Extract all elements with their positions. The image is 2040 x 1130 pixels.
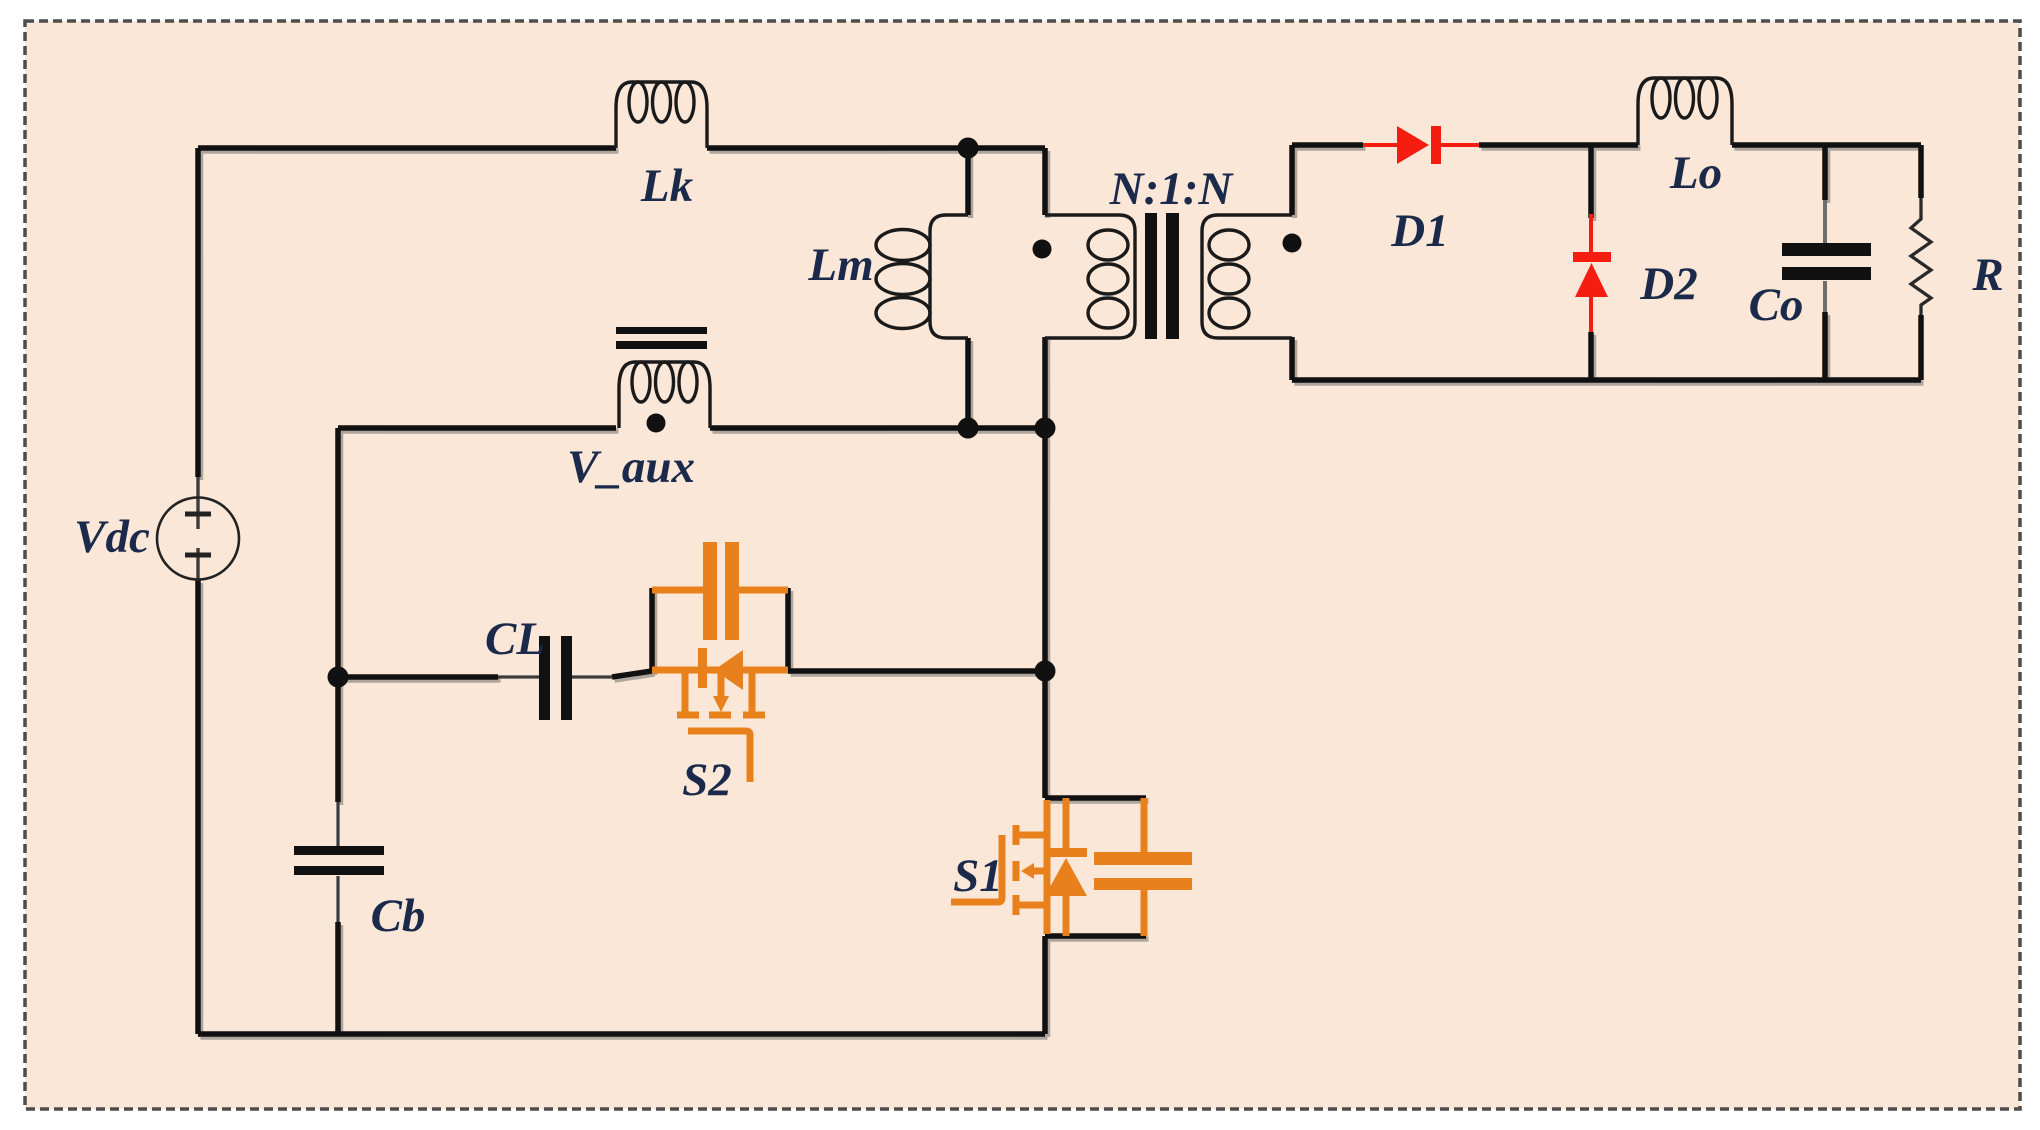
svg-text:S1: S1	[953, 850, 1003, 902]
node A junction dot	[958, 138, 979, 159]
node D junction dot (S2 output)	[1035, 661, 1056, 682]
wire: top rail from left rail to Lk	[198, 145, 616, 151]
wire: Co branch top	[1822, 145, 1828, 200]
wire: V_aux rail from left branch to node B	[338, 425, 616, 431]
wire: top rail from Lk to primary corner	[707, 145, 1045, 151]
wire: D2 branch upper black part	[1588, 145, 1594, 218]
wire: S2 left terminal vertical	[649, 588, 655, 672]
svg-text:Lm: Lm	[807, 239, 873, 291]
wire: Co branch bottom	[1822, 312, 1828, 380]
svg-text:Co: Co	[1749, 279, 1804, 331]
svg-text:Lo: Lo	[1669, 147, 1722, 199]
wire: S1 source to bottom rail	[1042, 936, 1048, 1034]
svg-text:Lk: Lk	[640, 160, 694, 212]
node B junction dot	[958, 418, 979, 439]
svg-text:CL: CL	[485, 613, 545, 665]
svg-text:N:1:N: N:1:N	[1109, 163, 1235, 215]
transformer secondary winding	[1202, 215, 1292, 338]
capacitor Co lead (thin)	[1823, 200, 1827, 312]
wire: left branch from V_aux rail down to Cb	[335, 428, 341, 802]
wire: drop from node A to primary top lead	[1042, 148, 1048, 215]
wire: bottom rail	[198, 1031, 1045, 1037]
wire: S2 output to center vertical	[788, 668, 1045, 674]
wire: S2 right terminal vertical	[785, 588, 791, 671]
wire: Lo to top right corner	[1732, 142, 1921, 148]
MOSFET S2 with snubber capacitor	[652, 542, 788, 782]
wire: output top rail from secondary to D1 anode	[1292, 142, 1363, 148]
diode D2	[1573, 214, 1611, 332]
resistor R	[1911, 198, 1931, 315]
wire: Cb to bottom rail	[335, 922, 341, 1034]
wire: secondary bottom lead corner down to output bottom rail	[1289, 337, 1295, 380]
wire: D1 cathode to D2 node	[1479, 142, 1591, 148]
wire: secondary top lead corner up to output top rail	[1289, 145, 1295, 215]
svg-text:R: R	[1971, 249, 2003, 301]
polarity dot primary	[1033, 240, 1052, 259]
node E junction dot (CL node)	[328, 667, 349, 688]
wire: CL node to CL cap	[338, 674, 498, 680]
wire: main center vertical from primary bottom to S1 drain	[1042, 337, 1048, 798]
svg-text:Cb: Cb	[371, 890, 426, 942]
wire: left rail from top wire down to Vdc source	[195, 148, 201, 477]
wire shadow layer	[201, 148, 1924, 1037]
wire: left rail from Vdc source down to bottom rail	[195, 580, 201, 1034]
inductor Lk	[616, 82, 707, 148]
wire: R top stub	[1918, 145, 1924, 198]
svg-text:D2: D2	[1639, 258, 1697, 310]
diode D1	[1363, 126, 1479, 164]
wire: Lm bottom lead drop to V_aux rail	[965, 338, 971, 428]
magnetizing inductor Lm	[876, 215, 968, 338]
capacitor Cb leads (thin)	[336, 802, 339, 922]
node C junction dot	[1035, 418, 1056, 439]
transformer core	[1145, 213, 1179, 339]
polarity dot secondary	[1283, 234, 1302, 253]
wire: D2 node to Lo	[1591, 142, 1638, 148]
capacitor CL	[539, 636, 572, 720]
wire: output bottom rail	[1292, 377, 1921, 383]
wire: S1 drain node horizontal	[1045, 795, 1146, 801]
inductor Lo	[1638, 78, 1732, 145]
svg-text:V_aux: V_aux	[567, 441, 695, 493]
Vdc source leads (thin)	[196, 477, 199, 581]
wire: CL cap to S2 left terminal	[612, 671, 652, 677]
svg-text:D1: D1	[1390, 205, 1448, 257]
transformer primary winding	[1045, 215, 1135, 338]
capacitor CL leads (thin)	[498, 675, 612, 678]
aux winding V_aux with core	[619, 362, 710, 428]
svg-text:Vdc: Vdc	[74, 511, 150, 563]
polarity dot V_aux	[647, 414, 666, 433]
capacitor Cb	[294, 846, 384, 875]
wire: S1 source node horizontal	[1045, 933, 1146, 939]
svg-text:S2: S2	[682, 754, 732, 806]
capacitor Co	[1782, 243, 1871, 280]
voltage source Vdc	[157, 498, 239, 580]
MOSFET S1 with snubber capacitor	[951, 798, 1192, 936]
wire: D2 branch lower black part	[1588, 332, 1594, 380]
wire: drop from node A to Lm top lead	[965, 148, 971, 215]
wire: R bottom stub	[1918, 315, 1924, 380]
